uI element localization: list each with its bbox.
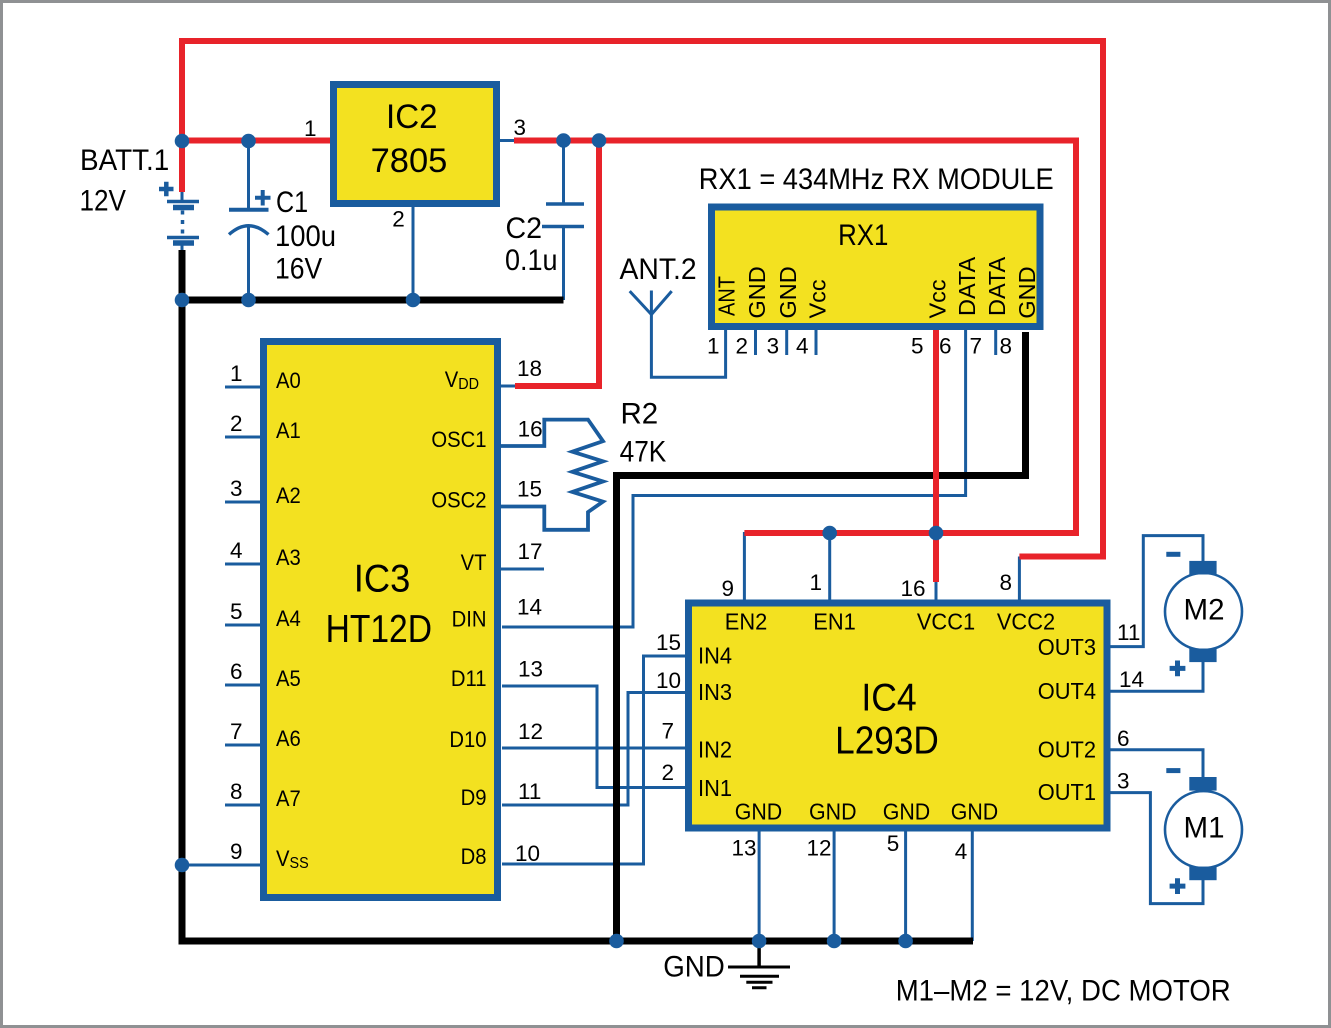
svg-text:11: 11 xyxy=(518,779,541,804)
svg-text:12V: 12V xyxy=(80,184,127,217)
svg-text:16V: 16V xyxy=(275,252,322,285)
svg-text:BATT.1: BATT.1 xyxy=(80,144,169,177)
svg-text:A1: A1 xyxy=(276,418,301,443)
svg-text:5: 5 xyxy=(887,831,900,856)
svg-text:14: 14 xyxy=(1119,667,1144,692)
svg-text:6: 6 xyxy=(230,659,243,684)
svg-text:0.1u: 0.1u xyxy=(505,243,558,276)
svg-text:16: 16 xyxy=(900,576,925,601)
svg-text:L293D: L293D xyxy=(835,719,939,762)
svg-text:10: 10 xyxy=(515,841,540,866)
svg-text:OUT4: OUT4 xyxy=(1038,677,1096,704)
svg-text:8: 8 xyxy=(230,779,243,804)
svg-text:A5: A5 xyxy=(276,666,301,691)
svg-text:Vcc: Vcc xyxy=(805,279,831,318)
svg-text:9: 9 xyxy=(230,839,243,864)
svg-text:M1–M2 = 12V, DC MOTOR: M1–M2 = 12V, DC MOTOR xyxy=(896,975,1231,1008)
svg-text:VT: VT xyxy=(461,550,487,575)
svg-text:IC3: IC3 xyxy=(354,557,411,600)
svg-text:DIN: DIN xyxy=(452,607,487,632)
svg-text:C1: C1 xyxy=(276,185,308,218)
svg-text:GND: GND xyxy=(775,266,801,318)
svg-text:RX1 = 434MHz RX MODULE: RX1 = 434MHz RX MODULE xyxy=(699,163,1054,197)
svg-text:GND: GND xyxy=(735,799,783,825)
svg-text:A2: A2 xyxy=(276,483,301,508)
svg-text:2: 2 xyxy=(661,760,674,785)
svg-text:HT12D: HT12D xyxy=(326,607,432,651)
svg-text:1: 1 xyxy=(707,334,720,359)
svg-text:A3: A3 xyxy=(276,545,301,570)
svg-text:13: 13 xyxy=(518,657,543,682)
svg-text:GND: GND xyxy=(663,951,725,984)
svg-text:GND: GND xyxy=(951,799,999,825)
svg-text:IC2: IC2 xyxy=(386,97,438,136)
svg-text:D8: D8 xyxy=(461,844,487,869)
svg-text:GND: GND xyxy=(1014,266,1040,318)
svg-text:6: 6 xyxy=(1117,726,1130,751)
svg-text:7: 7 xyxy=(230,719,243,744)
svg-text:IN4: IN4 xyxy=(698,642,732,669)
svg-text:1: 1 xyxy=(230,361,243,386)
svg-text:9: 9 xyxy=(721,576,734,601)
svg-text:2: 2 xyxy=(392,206,405,231)
svg-text:8: 8 xyxy=(999,334,1012,359)
svg-text:7: 7 xyxy=(969,334,982,359)
svg-text:6: 6 xyxy=(939,334,952,359)
svg-text:4: 4 xyxy=(230,538,243,563)
svg-text:10: 10 xyxy=(656,668,681,693)
svg-text:2: 2 xyxy=(735,334,748,359)
svg-text:DATA: DATA xyxy=(954,256,980,316)
svg-text:2: 2 xyxy=(230,411,243,436)
svg-text:3: 3 xyxy=(514,115,527,140)
svg-text:15: 15 xyxy=(517,477,542,502)
svg-text:16: 16 xyxy=(518,416,543,441)
svg-text:C2: C2 xyxy=(506,212,543,244)
svg-text:11: 11 xyxy=(1117,620,1140,645)
svg-text:IN1: IN1 xyxy=(698,774,732,801)
svg-text:R2: R2 xyxy=(621,398,659,431)
svg-text:RX1: RX1 xyxy=(838,218,888,251)
svg-text:OUT2: OUT2 xyxy=(1038,736,1096,763)
svg-text:D10: D10 xyxy=(449,727,486,752)
svg-text:47K: 47K xyxy=(620,435,667,468)
svg-text:D9: D9 xyxy=(461,785,487,810)
svg-text:EN1: EN1 xyxy=(813,608,856,635)
svg-text:OUT1: OUT1 xyxy=(1038,778,1096,805)
svg-text:1: 1 xyxy=(304,116,317,141)
svg-text:GND: GND xyxy=(744,266,770,318)
svg-text:A7: A7 xyxy=(276,786,301,811)
svg-text:100u: 100u xyxy=(275,220,336,253)
svg-text:7805: 7805 xyxy=(371,142,448,180)
svg-text:4: 4 xyxy=(955,839,968,864)
svg-text:5: 5 xyxy=(911,334,924,359)
svg-text:ANT.2: ANT.2 xyxy=(620,253,697,286)
svg-text:1: 1 xyxy=(809,570,822,595)
svg-text:OSC2: OSC2 xyxy=(431,488,486,513)
svg-text:VCC1: VCC1 xyxy=(917,608,975,635)
svg-text:Vcc: Vcc xyxy=(925,279,951,318)
svg-text:3: 3 xyxy=(767,334,780,359)
svg-text:3: 3 xyxy=(230,476,243,501)
svg-text:14: 14 xyxy=(517,595,542,620)
svg-text:A4: A4 xyxy=(276,606,301,631)
svg-text:IC4: IC4 xyxy=(861,675,916,719)
svg-text:OSC1: OSC1 xyxy=(431,427,486,452)
svg-text:DATA: DATA xyxy=(984,256,1010,316)
svg-text:12: 12 xyxy=(518,719,543,744)
svg-text:7: 7 xyxy=(661,719,674,744)
svg-text:GND: GND xyxy=(809,799,857,825)
svg-text:VCC2: VCC2 xyxy=(997,608,1055,635)
svg-text:GND: GND xyxy=(883,799,931,825)
svg-text:IN3: IN3 xyxy=(698,678,732,705)
svg-text:18: 18 xyxy=(517,356,542,381)
svg-text:A0: A0 xyxy=(276,368,301,393)
svg-text:OUT3: OUT3 xyxy=(1038,633,1096,660)
svg-text:M2: M2 xyxy=(1184,593,1225,626)
svg-text:13: 13 xyxy=(731,835,756,860)
svg-text:ANT: ANT xyxy=(713,276,740,316)
svg-text:8: 8 xyxy=(999,570,1012,595)
svg-text:EN2: EN2 xyxy=(725,608,768,635)
svg-text:D11: D11 xyxy=(451,666,487,691)
svg-text:17: 17 xyxy=(518,539,543,564)
svg-text:A6: A6 xyxy=(276,726,301,751)
svg-text:M1: M1 xyxy=(1184,812,1225,845)
svg-text:12: 12 xyxy=(806,835,831,860)
svg-text:5: 5 xyxy=(230,599,243,624)
svg-text:3: 3 xyxy=(1117,769,1130,794)
svg-text:IN2: IN2 xyxy=(698,736,732,763)
svg-text:15: 15 xyxy=(656,630,681,655)
svg-text:4: 4 xyxy=(796,334,809,359)
